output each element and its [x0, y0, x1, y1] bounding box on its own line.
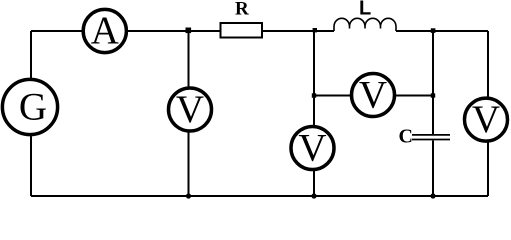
svg-text:C: C [399, 126, 413, 148]
svg-text:G: G [19, 85, 47, 128]
svg-text:L: L [359, 0, 371, 20]
svg-text:V: V [359, 73, 387, 116]
svg-text:A: A [91, 9, 119, 52]
svg-text:V: V [298, 126, 326, 169]
svg-text:R: R [235, 0, 249, 20]
svg-text:V: V [472, 98, 500, 141]
svg-text:V: V [176, 88, 204, 131]
